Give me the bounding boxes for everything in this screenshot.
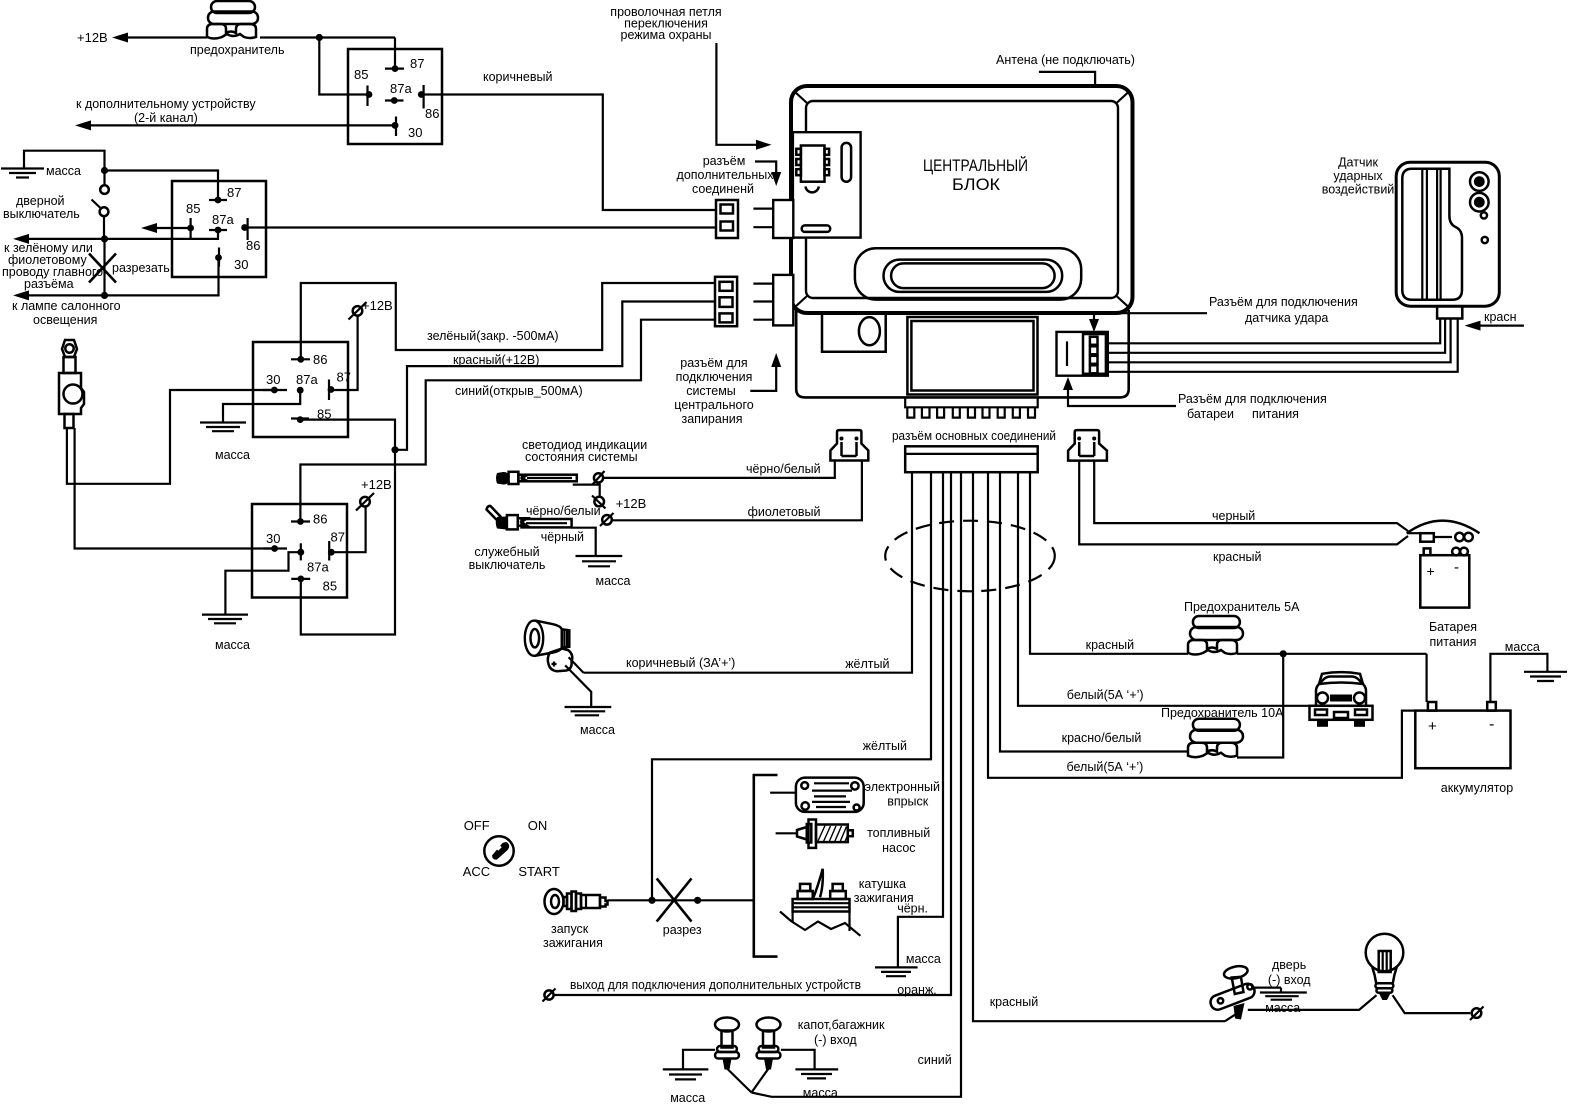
wire to fuel pump [776, 832, 797, 834]
svg-text:чёрно/белый: чёрно/белый [526, 504, 601, 518]
label к лампе салонного освещения [12, 299, 121, 327]
wire switch2 to ground [781, 1050, 815, 1070]
wire junction down to K4-85 [301, 450, 395, 635]
svg-text:(2-й канал): (2-й канал) [134, 111, 198, 125]
svg-text:-: - [1489, 716, 1494, 733]
svg-text:служебный: служебный [474, 545, 539, 559]
relay K2 box [172, 181, 266, 277]
svg-text:ACC: ACC [463, 864, 490, 879]
relay K3 pin 30 [263, 372, 287, 393]
svg-text:Предохранитель 10А: Предохранитель 10А [1161, 706, 1284, 720]
svg-text:красн: красн [1484, 310, 1517, 324]
wire 2 жёлтый to ignition [652, 472, 931, 900]
label оранж. [897, 983, 937, 997]
wire черный plug to siren [1094, 461, 1408, 531]
LED +12V lead with terminal [573, 485, 647, 511]
svg-text:подключения: подключения [676, 370, 753, 384]
IC chip on module [796, 146, 829, 182]
label коричневый (ЗА'+') [626, 656, 735, 670]
wire чёрно/белый LED to plug [603, 461, 835, 478]
svg-text:запирания: запирания [682, 412, 743, 426]
central block inner border [806, 101, 1118, 298]
wire +12V corner to K1 pin87 [394, 38, 396, 69]
svg-text:Разъём для подключения: Разъём для подключения [1178, 392, 1327, 406]
ignition coil катушка зажигания icon [780, 869, 860, 936]
wire коричневый K1-86 to aux connector [421, 95, 716, 211]
ground K3 pin87a масса [200, 390, 300, 462]
label ЦЕНТРАЛЬНЫЙ БЛОК [923, 156, 1028, 194]
dashed harness ellipse [885, 521, 1055, 592]
svg-text:зелёный(закр. -500мА): зелёный(закр. -500мА) [427, 329, 559, 343]
svg-text:белый(5А ‘+’): белый(5А ‘+’) [1067, 760, 1144, 774]
svg-text:красный: красный [1086, 638, 1135, 652]
svg-text:Антена (не подключать): Антена (не подключать) [996, 53, 1135, 67]
car icon [1310, 672, 1373, 727]
ground масса switch1 [663, 1069, 709, 1105]
svg-text:масса: масса [580, 723, 615, 737]
label Разъём для подключения батареи питания with arrow [1063, 377, 1327, 421]
svg-text:освещения: освещения [33, 313, 97, 327]
svg-text:разрез: разрез [663, 923, 702, 937]
wire красный plug to siren battery [1079, 461, 1408, 545]
svg-text:центрального: центрального [674, 398, 753, 412]
aux connector stub on block [753, 200, 793, 238]
relay K3 box [253, 342, 348, 437]
wire коричневый siren to connector [569, 657, 584, 673]
label чёрно/белый (service switch) [526, 504, 601, 518]
door switch дверной выключатель [92, 171, 109, 239]
svg-text:Батарея: Батарея [1429, 620, 1477, 634]
svg-text:катушка: катушка [859, 877, 906, 891]
svg-text:разъём: разъём [703, 154, 746, 168]
svg-text:запуск: запуск [551, 922, 589, 936]
svg-text:чёрно/белый: чёрно/белый [746, 462, 821, 476]
svg-text:жёлтый: жёлтый [845, 657, 889, 671]
svg-text:+: + [1427, 563, 1435, 579]
svg-text:87: 87 [410, 56, 424, 71]
relay K2 pin 87 [209, 185, 241, 203]
svg-text:разрезать: разрезать [112, 261, 170, 275]
relay K4 pin 30 [263, 531, 287, 552]
door switch plate [1208, 982, 1256, 1012]
shock sensor wires to connector [1108, 319, 1458, 372]
end terminal circle [1470, 1007, 1484, 1021]
svg-text:30: 30 [408, 125, 422, 140]
label катушка зажигания чёрн. [854, 877, 928, 916]
svg-text:масса: масса [215, 448, 250, 462]
svg-text:фиолетовый: фиолетовый [748, 505, 821, 519]
wire фиолетовый switch to plug [613, 461, 862, 521]
wire fuse5A to battery plus [1237, 650, 1427, 702]
label аккумулятор [1441, 781, 1513, 795]
central-lock 3-pin connector [715, 277, 737, 326]
svg-text:синий(открыв_500мА): синий(открыв_500мА) [455, 384, 583, 398]
wire to lamp with arrow and K2 pin30 [13, 258, 219, 301]
relay K1 pin 30 [392, 117, 423, 141]
ground масса switch2 [795, 1069, 838, 1100]
svg-text:черный: черный [1212, 509, 1255, 523]
svg-text:85: 85 [186, 201, 200, 216]
svg-text:87: 87 [337, 370, 351, 385]
node +12V label top-left [77, 30, 108, 45]
svg-text:масса: масса [906, 952, 941, 966]
LED connection terminal [593, 471, 605, 485]
label жёлтый second [863, 739, 907, 753]
3-pin connector stub on block [753, 275, 793, 326]
wire синий K4-86 to connector [300, 320, 716, 522]
svg-text:30: 30 [234, 257, 248, 272]
wire 4 оранж output [554, 472, 952, 995]
siren dome (backup siren) [1407, 521, 1480, 542]
svg-text:питания: питания [1252, 407, 1299, 421]
svg-text:красно/белый: красно/белый [1062, 731, 1142, 745]
LED plug 2-pin [830, 430, 868, 460]
svg-text:разъём основных соединений: разъём основных соединений [892, 429, 1056, 443]
ground масса ignition coil wire [875, 952, 941, 976]
display box on base [907, 317, 1037, 395]
label синий [918, 1053, 952, 1067]
svg-text:коричневый (ЗА’+’): коричневый (ЗА’+’) [626, 656, 735, 670]
wire hood switch to K3 pin30 [67, 390, 275, 484]
wire switch1 to ground [683, 1050, 715, 1070]
label масса [46, 164, 81, 178]
cut mark X разрез [657, 878, 702, 937]
wire 7 белый(5А) to battery [988, 472, 1415, 778]
door pin switch (tilted) [1223, 964, 1249, 1019]
svg-text:86: 86 [425, 106, 439, 121]
hood/trunk pin switch 1 [715, 1018, 739, 1070]
wire 9 белый(5А) to car [1018, 472, 1310, 706]
cut mark X разрезать [89, 254, 170, 283]
svg-text:87а: 87а [212, 212, 234, 227]
wire junction down to fuse 10A right [1237, 654, 1283, 758]
fuse F1 предохранитель [207, 1, 258, 39]
svg-text:режима охраны: режима охраны [621, 28, 712, 42]
label светодиод индикации состояния системы [522, 438, 647, 464]
hood/trunk pin switch 2 [757, 1018, 781, 1070]
wire ground to door-switch node [24, 151, 105, 171]
main battery аккумулятор [1415, 702, 1510, 768]
ground масса top-left [1, 169, 44, 178]
relay K1 box [348, 49, 442, 144]
svg-text:+12В: +12В [362, 298, 393, 313]
svg-text:86: 86 [313, 512, 327, 527]
label служебный выключатель [469, 545, 546, 572]
central block outer slab [791, 86, 1133, 313]
label красный bottom [990, 995, 1039, 1009]
label дверной выключатель [3, 194, 80, 221]
svg-text:87: 87 [227, 185, 241, 200]
svg-text:датчика удара: датчика удара [1245, 311, 1328, 325]
svg-text:системы: системы [686, 384, 736, 398]
svg-text:состояния системы: состояния системы [525, 450, 638, 464]
aux 2-pin connector разъём дополнительных соединенй [716, 200, 738, 238]
wire 1 жёлтый to siren brown [584, 472, 913, 673]
wire door switch down through cut mark [103, 239, 105, 296]
label черный [1212, 509, 1255, 523]
door switch ground stub [1251, 988, 1281, 993]
relay K3 pin 87a [296, 372, 318, 394]
label красный (fuse feed) [1086, 638, 1135, 652]
svg-text:питания: питания [1430, 635, 1477, 649]
wire ignition to cut mark [608, 897, 754, 904]
main connector разъём основных соединений [905, 446, 1037, 472]
wire loop проволочная петля with arrow [610, 5, 771, 150]
label Предохранитель 10А [1161, 706, 1284, 720]
svg-text:масса: масса [803, 1086, 838, 1100]
svg-text:+12В: +12В [361, 477, 392, 492]
comb connector teeth on block [905, 397, 1037, 417]
wire junction to K1 pin85 [319, 38, 369, 95]
svg-text:электронный: электронный [865, 780, 940, 794]
svg-text:87а: 87а [390, 81, 412, 96]
svg-text:дверной: дверной [16, 194, 65, 208]
svg-text:белый(5А ‘+’): белый(5А ‘+’) [1067, 688, 1144, 702]
label красный [1213, 550, 1262, 564]
svg-text:впрыск: впрыск [887, 795, 929, 809]
svg-text:батареи: батареи [1187, 407, 1234, 421]
label жёлтый [845, 657, 889, 671]
ground масса right [1490, 640, 1567, 702]
label запуск зажигания [543, 922, 603, 950]
fuse Предохранитель 10А [1188, 719, 1243, 758]
svg-text:87а: 87а [307, 560, 329, 575]
svg-text:жёлтый: жёлтый [863, 739, 907, 753]
svg-text:к дополнительному устройству: к дополнительному устройству [76, 97, 256, 111]
svg-text:ЦЕНТРАЛЬНЫЙ: ЦЕНТРАЛЬНЫЙ [923, 156, 1028, 175]
relay K4 pin 86 [291, 512, 327, 527]
internal module board [793, 132, 861, 237]
module U arc [806, 187, 819, 193]
wire 2nd channel output with arrow [75, 120, 398, 130]
service switch +12V terminal on wire [600, 513, 614, 526]
relay K1 pin 87a [385, 81, 412, 104]
bracket for ignition loads [754, 775, 778, 957]
label красн with arrow [1465, 310, 1524, 331]
wire node to K2 pin87 [105, 171, 219, 201]
svg-text:(-) вход: (-) вход [1268, 973, 1311, 987]
relay K3 pin 85 [291, 407, 331, 424]
svg-text:предохранитель: предохранитель [190, 43, 284, 57]
label электронный впрыск [865, 780, 940, 809]
svg-text:масса: масса [46, 164, 81, 178]
ignition switch positions [463, 818, 560, 879]
relay K4 pin 87a [297, 543, 329, 574]
label Батарея питания [1429, 620, 1477, 649]
wire 5 синий to hood/trunk switches [772, 472, 962, 1097]
+12V tap for K3 [332, 298, 393, 390]
wire lamp to terminal [1393, 995, 1471, 1013]
svg-text:Датчик: Датчик [1338, 156, 1378, 170]
central block base [796, 310, 1128, 397]
svg-text:(-) вход: (-) вход [814, 1033, 857, 1047]
svg-text:оранж.: оранж. [897, 983, 937, 997]
label белый(5А '+') second [1067, 760, 1144, 774]
svg-text:30: 30 [266, 531, 280, 546]
label чёрно/белый [746, 462, 821, 476]
backup battery Батарея питания [1420, 548, 1469, 608]
junction on +12V line [316, 34, 323, 41]
relay K2 pin 86 [241, 218, 260, 253]
wire +12V feed with left arrow [112, 33, 395, 43]
svg-text:85: 85 [323, 579, 337, 594]
svg-text:START: START [518, 864, 559, 879]
central block corner bevels [795, 92, 1129, 307]
svg-text:масса: масса [596, 574, 631, 588]
label Разъём для подключения датчика удара with arrow [1089, 295, 1358, 332]
label чёрный [541, 530, 584, 544]
ignition lock icon [484, 836, 513, 865]
fuse Предохранитель 5А [1188, 616, 1243, 655]
courtesy lamp bulb [1366, 934, 1404, 1000]
svg-text:ON: ON [528, 818, 548, 833]
wire to ECU [770, 792, 797, 794]
label предохранитель [190, 43, 284, 57]
wire to green/violet wire with arrow [13, 230, 218, 244]
label разъём дополнительных соединенй with arrow [677, 154, 782, 196]
label дверь (-) вход [1268, 958, 1311, 987]
label Датчик ударных воздействий [1322, 156, 1395, 197]
key запуск зажигания icon [545, 889, 608, 914]
label капот,багажник (-) вход [798, 1018, 885, 1047]
shock sensor body Датчик ударных воздействий [1396, 162, 1499, 318]
svg-text:топливный: топливный [867, 826, 930, 840]
service switch служебный выключатель icon [487, 506, 572, 530]
svg-text:воздействий: воздействий [1322, 183, 1395, 197]
label фиолетовый [748, 505, 821, 519]
siren/battery plug 2-pin [1068, 430, 1107, 461]
relay K2 pin 87a [209, 212, 234, 233]
wire чёрный to ground [572, 528, 596, 556]
label Антена (не подключать) with pointer [996, 53, 1135, 86]
svg-text:-: - [1454, 559, 1459, 576]
svg-text:красный(+12В): красный(+12В) [453, 353, 539, 367]
svg-text:масса: масса [670, 1091, 705, 1105]
wire K3-85 to junction [300, 420, 395, 450]
wire K2-86 to aux connector pin2 [245, 226, 716, 228]
svg-text:насос: насос [882, 841, 915, 855]
svg-text:дополнительных: дополнительных [677, 168, 775, 182]
fuel pump топливный насос icon [797, 820, 853, 848]
module slot [842, 143, 852, 182]
svg-text:аккумулятор: аккумулятор [1441, 781, 1513, 795]
svg-text:масса: масса [1505, 640, 1540, 654]
svg-text:выключатель: выключатель [469, 558, 546, 572]
svg-text:+: + [1428, 718, 1437, 735]
junction red +12V node [391, 446, 398, 453]
label красный(+12В) [453, 353, 539, 367]
svg-text:дверь: дверь [1272, 958, 1306, 972]
label зелёный(закр. -500мА) [427, 329, 559, 343]
label синий(открыв_500мА) [455, 384, 583, 398]
label коричневый [483, 70, 552, 84]
ground масса service switch [576, 556, 631, 588]
svg-text:разъём для: разъём для [680, 356, 747, 370]
label белый(5А '+') first [1067, 688, 1144, 702]
hood pin switch (капот) icon [59, 340, 84, 428]
wire hood switch to K4 pin30 [75, 428, 275, 549]
svg-text:красный: красный [1213, 550, 1262, 564]
svg-text:86: 86 [246, 238, 260, 253]
svg-text:коричневый: коричневый [483, 70, 552, 84]
svg-text:Разъём для подключения: Разъём для подключения [1209, 295, 1358, 309]
label разъём для подключения системы центрального запирания with arrow [674, 353, 781, 426]
label разъём основных соединений [892, 429, 1056, 443]
wire 8 красно/белый to fuse 10A [1000, 472, 1188, 751]
relay K2 pin 30 [215, 248, 248, 273]
wire 10 красный to fuse 5A [1030, 472, 1188, 654]
svg-text:чёрн.: чёрн. [897, 902, 928, 916]
svg-text:масса: масса [1265, 1001, 1300, 1015]
ground масса siren [565, 707, 616, 737]
wire зелёный K3-86 to connector [301, 283, 716, 359]
ECU электронный впрыск icon [796, 778, 864, 812]
module lozenge [802, 225, 831, 232]
wire красный end to door switch [1225, 1014, 1236, 1021]
svg-text:+12В: +12В [77, 30, 108, 45]
ground K4 pin87a масса [202, 552, 301, 652]
siren ground lead [565, 665, 591, 707]
LED indicator icon [496, 472, 577, 485]
svg-text:85: 85 [354, 67, 368, 82]
svg-text:87: 87 [331, 530, 345, 545]
svg-text:чёрный: чёрный [541, 530, 584, 544]
junction door switch top [101, 167, 108, 174]
svg-text:87а: 87а [296, 372, 318, 387]
svg-text:БЛОК: БЛОК [952, 175, 1000, 194]
output terminal circle [543, 989, 556, 1002]
svg-text:Предохранитель 5А: Предохранитель 5А [1184, 600, 1300, 614]
svg-text:красный: красный [990, 995, 1039, 1009]
relay K4 pin 85 [291, 576, 337, 594]
shock sensor connector box on block [1057, 332, 1108, 376]
wire 6 красный to door switch [973, 472, 1225, 1021]
svg-text:разъёма: разъёма [24, 277, 74, 291]
svg-text:ударных: ударных [1333, 169, 1383, 183]
relay K3 pin 86 [291, 352, 327, 367]
label к дополнительному устройству (2-й канал) [76, 97, 256, 125]
svg-text:выключатель: выключатель [3, 207, 80, 221]
svg-text:капот,багажник: капот,багажник [798, 1018, 885, 1032]
speaker slot opening [855, 248, 1081, 299]
ground масса door [1260, 993, 1307, 1016]
svg-text:30: 30 [266, 372, 280, 387]
wires switches to синий wire [727, 1069, 772, 1097]
label к зелёному или фиолетовому проводу главного разъёма [2, 241, 103, 291]
svg-text:зажигания: зажигания [543, 936, 603, 950]
relay K4 pin 87 [328, 530, 345, 561]
svg-text:масса: масса [215, 638, 250, 652]
relay K1 pin 86 [418, 85, 440, 121]
svg-text:синий: синий [918, 1053, 952, 1067]
label Предохранитель 5А [1184, 600, 1300, 614]
svg-text:86: 86 [313, 352, 327, 367]
relay K2 pin 85 with arrow [141, 201, 200, 238]
wire 3 чёрн to ground [898, 472, 943, 967]
siren horn icon [525, 621, 572, 672]
+12V tap for K4 [331, 477, 391, 552]
relay K1 pin 87 [385, 56, 424, 72]
relay K3 pin 87 [328, 370, 351, 401]
relay K4 box [252, 504, 347, 598]
label выход для подключения дополнительных устройств [570, 978, 861, 992]
svg-text:к лампе салонного: к лампе салонного [12, 299, 121, 313]
svg-text:выход для подключения дополнит: выход для подключения дополнительных уст… [570, 978, 861, 992]
wire door switch to lamp [1248, 995, 1377, 1010]
label топливный насос [867, 826, 930, 855]
svg-text:+12В: +12В [616, 496, 647, 511]
relay K1 pin 85 [354, 67, 372, 106]
